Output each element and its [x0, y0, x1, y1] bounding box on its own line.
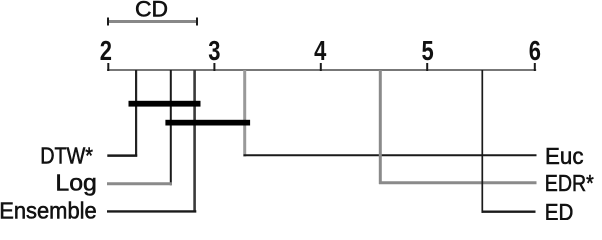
ED vertical wire: [481, 70, 483, 213]
svg-text:Euc: Euc: [545, 143, 584, 169]
axis tick 2: [107, 63, 109, 71]
CD ruler right tick: [196, 18, 198, 26]
svg-text:DTW*: DTW*: [40, 143, 93, 169]
EDR* horizontal wire: [379, 181, 537, 184]
Euc vertical wire: [243, 70, 246, 157]
clique bar 1 (DTW*, Log, Ensemble): [129, 101, 201, 107]
Log horizontal wire: [107, 182, 172, 185]
svg-text:6: 6: [529, 35, 541, 66]
svg-text:3: 3: [208, 35, 220, 66]
svg-text:EDR*: EDR*: [545, 170, 594, 196]
axis tick 3: [213, 63, 215, 71]
CD ruler left tick: [107, 18, 109, 26]
Euc horizontal wire: [244, 154, 537, 156]
svg-text:2: 2: [100, 35, 112, 66]
axis tick 5: [426, 63, 428, 71]
svg-text:CD: CD: [135, 0, 168, 22]
svg-text:Ensemble: Ensemble: [0, 197, 97, 220]
clique bar 2 (Log, Ensemble, Euc): [165, 120, 250, 126]
Ensemble vertical wire: [193, 70, 196, 213]
svg-text:ED: ED: [545, 199, 574, 220]
Log vertical wire: [170, 70, 172, 185]
DTW* horizontal wire: [107, 154, 137, 157]
svg-text:Log: Log: [55, 169, 97, 195]
DTW* vertical wire: [135, 70, 137, 157]
axis tick 6: [534, 63, 536, 71]
ED horizontal wire: [482, 210, 536, 212]
EDR* vertical wire: [379, 70, 382, 184]
axis tick 4: [320, 63, 322, 71]
axis line: [107, 69, 536, 71]
svg-text:4: 4: [314, 35, 327, 66]
svg-text:5: 5: [422, 35, 434, 66]
CD ruler bar: [108, 20, 199, 23]
Ensemble horizontal wire: [107, 210, 196, 212]
